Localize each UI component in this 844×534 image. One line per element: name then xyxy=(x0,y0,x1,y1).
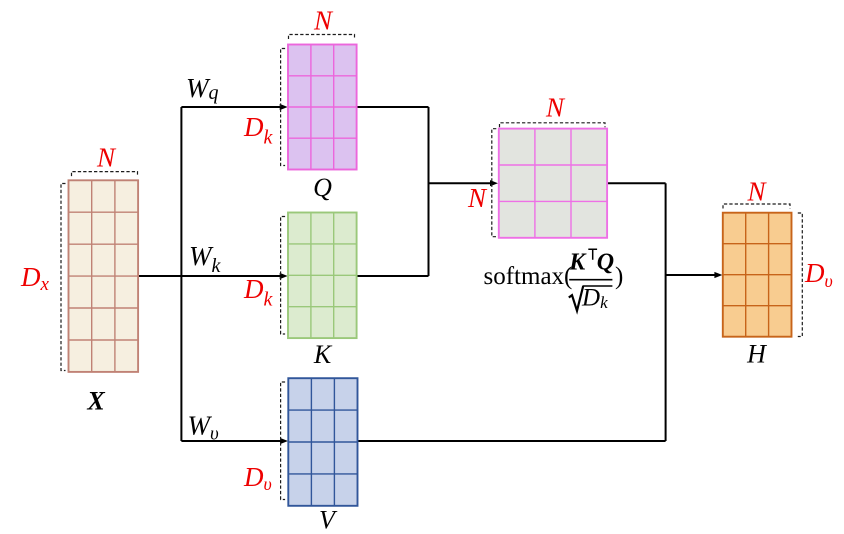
bracket D_k left of Q xyxy=(281,49,286,166)
wire SV join vertical xyxy=(665,183,667,441)
bracket D_v right of H xyxy=(798,213,803,337)
arrowhead into Q xyxy=(280,104,288,110)
bracket N over X xyxy=(72,172,138,177)
bracket N over Q xyxy=(289,35,355,40)
bracket D_x left of X xyxy=(61,184,66,371)
bracket N over softmax matrix xyxy=(500,123,606,128)
formula numerator K^T Q xyxy=(568,249,614,275)
svg-text:): ) xyxy=(615,263,623,290)
wire V output xyxy=(358,440,666,442)
svg-text:X: X xyxy=(86,387,105,416)
arrowhead into V xyxy=(280,438,288,444)
svg-text:Q: Q xyxy=(313,173,332,202)
formula fraction bar xyxy=(569,279,612,281)
svg-text:N: N xyxy=(96,143,117,173)
svg-text:H: H xyxy=(746,340,767,369)
wire QK join vertical xyxy=(428,107,430,276)
bracket N over H xyxy=(723,204,790,209)
bracket D_v left of V xyxy=(281,382,286,500)
matrix Q grid xyxy=(288,45,357,170)
matrix X grid xyxy=(69,180,139,372)
svg-text:softmax(: softmax( xyxy=(484,263,573,290)
wire K output xyxy=(357,275,429,277)
svg-text:N: N xyxy=(313,6,334,36)
wire Q output xyxy=(357,106,429,108)
svg-text:K: K xyxy=(313,340,333,369)
wire softmax output xyxy=(607,182,666,184)
svg-text:Q: Q xyxy=(597,250,614,276)
svg-text:K: K xyxy=(568,250,587,276)
wire branch vertical at x=181.4 xyxy=(180,107,182,441)
matrix softmax score matrix grid xyxy=(499,129,607,238)
wire W_q branch to Q xyxy=(181,106,280,108)
bracket D_k left of K xyxy=(281,217,286,335)
svg-text:N: N xyxy=(545,93,566,123)
wire X output to branch and into K (horizontal, y=276) xyxy=(138,275,280,277)
matrix H grid xyxy=(723,213,792,337)
arrowhead into softmax matrix xyxy=(490,180,498,186)
svg-text:N: N xyxy=(746,177,767,207)
wire into H xyxy=(666,274,716,276)
arrowhead into K xyxy=(280,273,288,279)
bracket N left of softmax matrix xyxy=(492,129,497,237)
matrix V grid xyxy=(288,378,357,506)
matrix K grid xyxy=(288,213,357,339)
arrowhead into H xyxy=(714,272,722,278)
svg-text:N: N xyxy=(467,183,488,213)
wire W_v branch to V xyxy=(181,440,280,442)
formula radical sign xyxy=(569,286,613,311)
wire into softmax matrix xyxy=(429,182,492,184)
